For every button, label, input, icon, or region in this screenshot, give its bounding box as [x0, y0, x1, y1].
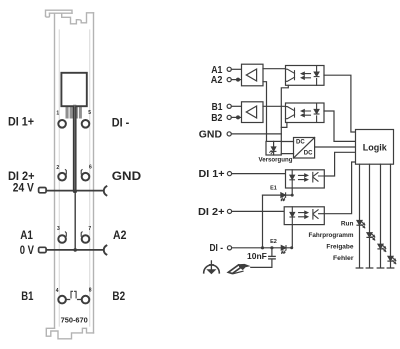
terminal circle 8 [82, 296, 90, 304]
svg-text:B1: B1 [21, 289, 33, 303]
svg-text:6: 6 [89, 165, 92, 171]
terminal circle 4 [58, 296, 66, 304]
terminal GND [227, 132, 231, 136]
LED Run [357, 221, 365, 228]
terminal circle 7 [82, 235, 90, 243]
module inner seam left [58, 30, 60, 326]
Versorgung diode [273, 141, 275, 147]
module inner seam right [89, 30, 91, 326]
wire DCDC to Logik [315, 146, 356, 148]
svg-text:1: 1 [56, 110, 59, 116]
svg-text:DI -: DI - [210, 243, 224, 254]
terminal B2 [227, 115, 231, 119]
svg-text:A2: A2 [113, 228, 126, 242]
terminal circle 3 [58, 235, 66, 243]
svg-text:10nF: 10nF [247, 251, 267, 261]
svg-text:B1: B1 [212, 102, 223, 113]
svg-text:7: 7 [88, 226, 91, 232]
wire U1 lower to rail1 [263, 82, 267, 142]
10nF capacitor branch [271, 248, 273, 256]
wire single 24V to 0V [74, 191, 76, 250]
svg-text:B2: B2 [112, 289, 125, 303]
LED Freigabe [378, 244, 386, 251]
junction dot rail/DI- [261, 246, 264, 249]
svg-text:750-670: 750-670 [61, 317, 88, 324]
svg-text:DI 1+: DI 1+ [199, 169, 225, 180]
svg-text:A1: A1 [20, 228, 33, 242]
24V end arc [104, 186, 107, 195]
OK2 bottom pin to rail2 [281, 123, 287, 128]
rail E1 to DI- [262, 195, 264, 248]
optocoupler OK1 box [286, 66, 325, 86]
E2 LED arrows [282, 251, 286, 254]
24V plug symbol [39, 188, 47, 193]
inversion dot B2 [236, 115, 240, 119]
svg-text:DI 1+: DI 1+ [8, 115, 34, 129]
wire DI- line [232, 247, 293, 249]
clamp tick circle 6 [80, 170, 83, 174]
LED Fahrprogramm [367, 233, 375, 240]
terminal circle 6 [82, 173, 90, 181]
svg-text:Freigabe: Freigabe [326, 244, 353, 251]
svg-text:3: 3 [57, 226, 60, 232]
svg-text:E2: E2 [270, 239, 277, 245]
DC/DC converter box [294, 138, 315, 159]
LED Fehler [388, 256, 396, 263]
wire GND to rail [231, 133, 281, 135]
E2 LED diode [281, 246, 285, 250]
clamp tick circle 3 [64, 232, 67, 236]
svg-text:B2: B2 [211, 113, 223, 124]
terminal A2 [227, 78, 231, 82]
svg-text:E1: E1 [270, 185, 277, 191]
terminal DI2+ [227, 209, 231, 213]
OK3 output to Logik [324, 152, 355, 176]
wire B1 to receiver [231, 105, 241, 107]
clamp tick circle 7 [80, 232, 83, 236]
terminal DI1+ [227, 172, 231, 176]
Logik box [356, 130, 394, 165]
OK4 interior [290, 207, 324, 225]
svg-text:2: 2 [56, 165, 59, 171]
OK3 bottom pin [291, 188, 293, 195]
OK1 interior [286, 66, 320, 86]
svg-text:0 V: 0 V [20, 243, 35, 257]
24V line [46, 190, 102, 192]
E1 wire [263, 194, 293, 196]
wires Versorgung to DCDC [281, 142, 293, 154]
terminal DI- [227, 246, 231, 250]
wire U1 out to opto1 [263, 68, 286, 70]
driver U2 box [242, 102, 264, 123]
OK2 output to Logik [324, 111, 356, 141]
OK4 output to Logik [324, 162, 355, 214]
optocoupler OK4 box [284, 207, 324, 225]
OK2 interior [286, 103, 320, 123]
Logik output line 2 [366, 164, 373, 268]
0V plug symbol [39, 247, 47, 252]
connector plug box [61, 73, 86, 106]
OK4 bottom pin [291, 225, 293, 248]
0V line [46, 249, 102, 251]
driver U1 box [242, 64, 264, 86]
wire A1 to receiver [231, 68, 241, 70]
optocoupler OK3 box [286, 170, 325, 188]
wire DI2+ to opto4 [232, 210, 285, 212]
terminal A1 [227, 67, 231, 71]
module top hook profile [46, 10, 94, 24]
earth symbol [204, 261, 220, 274]
svg-text:DC: DC [296, 140, 305, 146]
svg-text:8: 8 [89, 287, 92, 293]
Versorgung box [266, 141, 281, 155]
jumper contact hooks row4 [71, 291, 76, 298]
OK3 interior [290, 170, 324, 188]
junction dot 0V [73, 248, 77, 252]
OK1 bottom pin to rail2 [281, 85, 288, 141]
wire B2 to receiver [231, 116, 241, 118]
module right edge [93, 13, 95, 333]
E1 LED diode [281, 193, 285, 197]
driver U2 triangle [246, 106, 256, 118]
svg-text:GND: GND [112, 169, 141, 183]
terminal circle 1 [58, 120, 66, 128]
svg-text:Run: Run [341, 220, 354, 227]
jumper contact stubs row4 [66, 299, 81, 301]
optocoupler OK2 box [286, 103, 325, 123]
terminal circle 2 [58, 173, 66, 181]
inversion dot A2 [236, 78, 240, 82]
wire DI1+ to opto3 [232, 173, 286, 175]
OK1 output to Logik [324, 75, 356, 132]
wire pair from connector [73, 106, 76, 191]
terminal B1 [227, 104, 231, 108]
svg-text:DI -: DI - [112, 116, 130, 130]
E1 LED arrows [281, 198, 285, 201]
svg-text:Fahrprogramm: Fahrprogramm [309, 232, 354, 239]
svg-text:DI 2+: DI 2+ [198, 207, 225, 218]
wire A2 to receiver [231, 79, 241, 81]
Logik output line 4 [387, 164, 394, 268]
svg-text:A2: A2 [211, 75, 223, 86]
wire U2 out to opto2 [263, 105, 286, 107]
clamp tick circle 2 [64, 170, 67, 174]
module left edge [54, 13, 56, 328]
rail clip symbol [228, 264, 250, 274]
svg-text:5: 5 [88, 110, 91, 116]
svg-text:24 V: 24 V [13, 181, 35, 195]
svg-text:DC: DC [304, 151, 313, 157]
driver U1 triangle [246, 69, 256, 81]
0V end arc [104, 246, 107, 255]
module bottom foot profile [46, 328, 93, 339]
svg-text:Versorgung: Versorgung [259, 157, 293, 164]
Logik output line 3 [377, 164, 384, 268]
connector shading grey [66, 107, 82, 119]
svg-text:4: 4 [56, 288, 59, 294]
svg-text:Fehler: Fehler [333, 255, 354, 262]
Logik output line 1 [356, 164, 363, 268]
terminal circle 5 [82, 120, 90, 128]
junction dot 24V [73, 190, 77, 194]
svg-text:GND: GND [199, 129, 222, 140]
svg-text:Logik: Logik [363, 143, 388, 153]
